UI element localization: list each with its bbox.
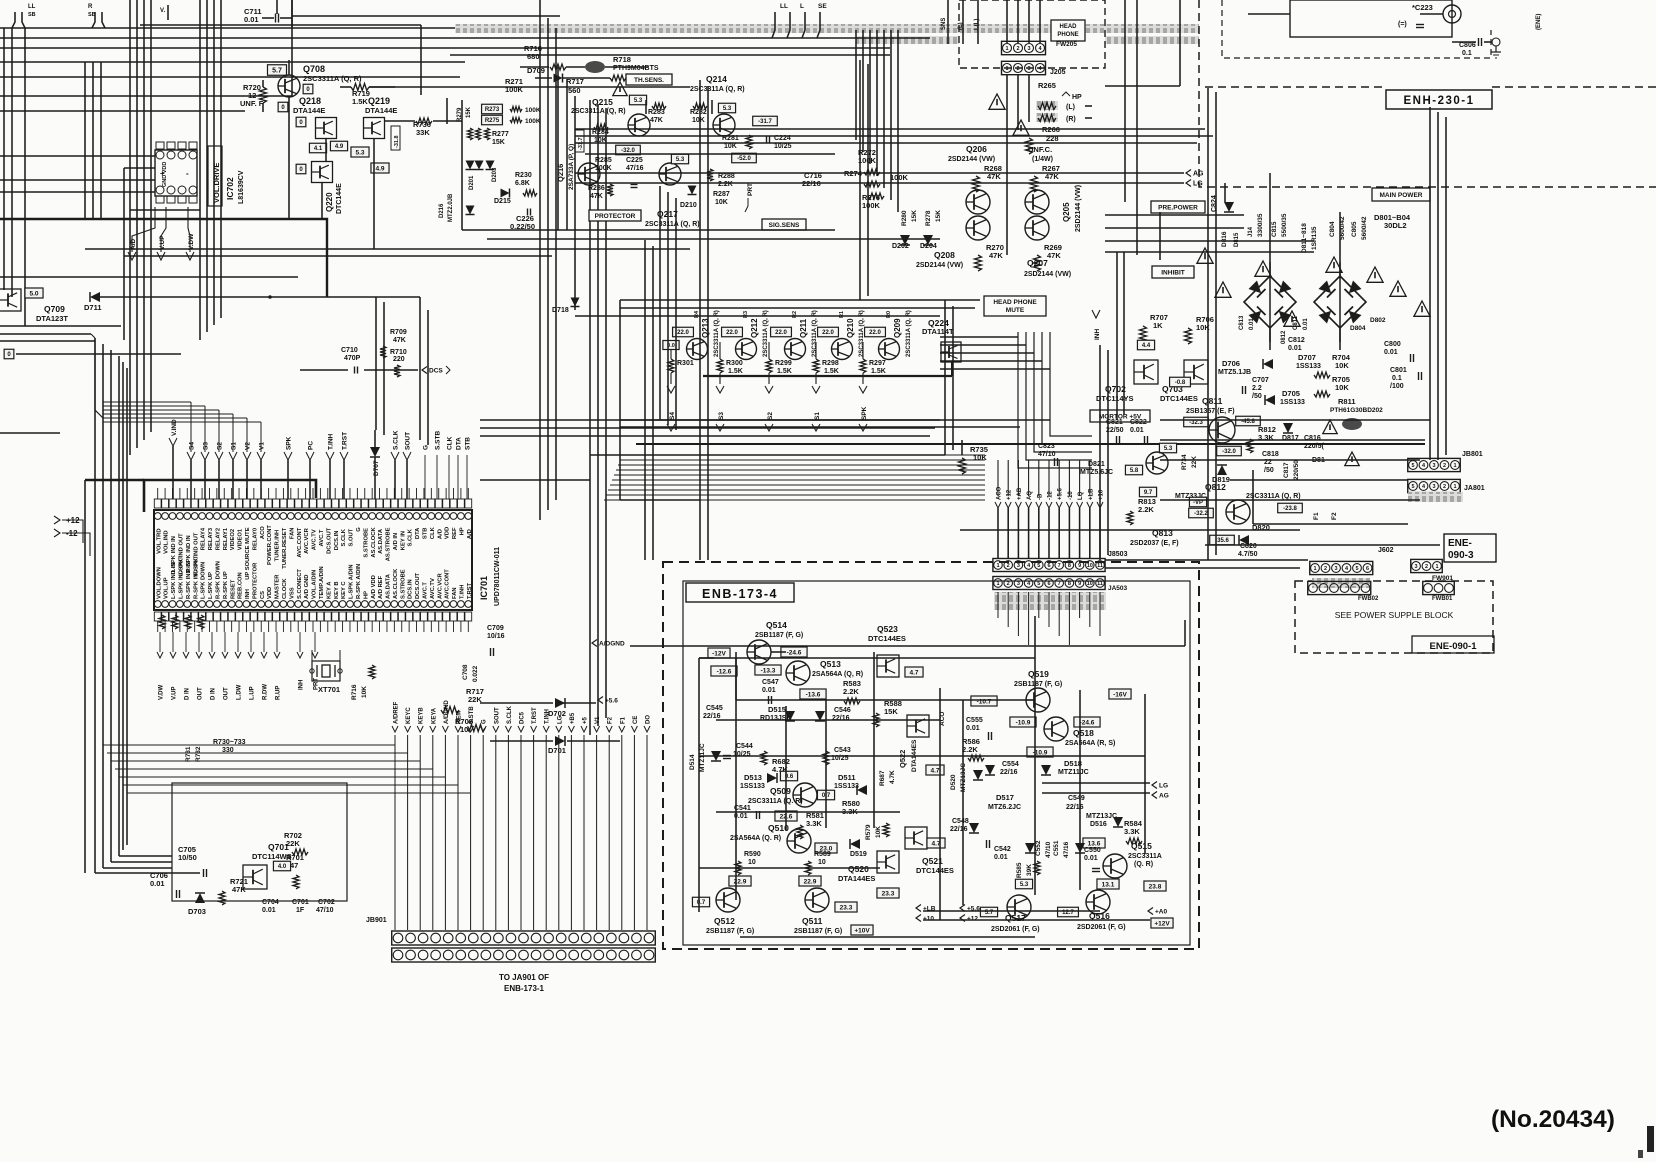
svg-text:AVC.T: AVC.T bbox=[319, 529, 325, 546]
pin bottom 23 bbox=[317, 601, 324, 608]
svg-text:C811: C811 bbox=[1293, 315, 1299, 330]
wire bbox=[103, 401, 191, 403]
node V.DW bbox=[186, 252, 194, 260]
wire fan to JB901 bbox=[394, 735, 396, 930]
svg-text:100K: 100K bbox=[525, 107, 541, 114]
svg-text:D802: D802 bbox=[1370, 317, 1386, 324]
svg-text:1SS133: 1SS133 bbox=[1280, 399, 1305, 406]
pin bottom 25 bbox=[332, 601, 339, 608]
svg-text:JB801: JB801 bbox=[1462, 451, 1483, 458]
svg-text:9.7: 9.7 bbox=[1144, 490, 1153, 496]
bus hatch 2 bbox=[856, 36, 959, 44]
svg-text:LQ: LQ bbox=[1078, 491, 1084, 500]
svg-text:1SS133: 1SS133 bbox=[834, 783, 859, 790]
pin bottom 13 bbox=[243, 601, 250, 608]
svg-text:C710: C710 bbox=[341, 347, 358, 354]
wire bbox=[12, 12, 15, 28]
wire bbox=[462, 229, 835, 231]
wire ENB v6 bbox=[939, 688, 941, 920]
svg-text:2.2K: 2.2K bbox=[843, 687, 859, 696]
svg-text:ACO: ACO bbox=[260, 526, 266, 539]
wire bbox=[167, 5, 169, 20]
svg-text:470P: 470P bbox=[344, 355, 361, 362]
wire bbox=[667, 192, 669, 425]
boxval -32.0 bbox=[1217, 446, 1242, 456]
wire vertical bundle left-mid bbox=[94, 338, 96, 873]
svg-text:1SR135: 1SR135 bbox=[1311, 226, 1318, 250]
svg-text:S.STB: S.STB bbox=[435, 431, 442, 450]
wire thick border bbox=[636, 443, 1425, 445]
pin top 42 bbox=[458, 513, 465, 520]
dashed line 2 bbox=[1492, 86, 1656, 88]
svg-text:DTC114YS: DTC114YS bbox=[1096, 394, 1134, 403]
svg-text:2: 2 bbox=[1443, 484, 1446, 490]
wire bridge v2 bbox=[1123, 252, 1125, 415]
svg-text:C542: C542 bbox=[994, 846, 1011, 853]
pin bottom 14 bbox=[250, 601, 257, 608]
boxed -24.6 bbox=[781, 647, 807, 657]
node +A0 bbox=[1148, 908, 1153, 915]
wire bbox=[675, 198, 677, 430]
svg-text:23.3: 23.3 bbox=[882, 890, 895, 897]
svg-text:R579: R579 bbox=[865, 824, 872, 840]
svg-text:L.UP: L.UP bbox=[250, 686, 256, 700]
svg-text:1: 1 bbox=[1005, 46, 1008, 52]
svg-text:C813: C813 bbox=[1239, 315, 1245, 330]
svg-text:JA503: JA503 bbox=[1108, 585, 1128, 592]
svg-text:DCS.IN: DCS.IN bbox=[334, 531, 340, 551]
svg-text:2: 2 bbox=[1425, 564, 1428, 570]
bus hatch bbox=[455, 24, 1199, 33]
node SOUT bbox=[403, 452, 411, 460]
svg-text:RELAY0: RELAY0 bbox=[252, 528, 258, 550]
label ENB-173-4 bbox=[686, 583, 794, 602]
svg-text:3: 3 bbox=[1432, 484, 1435, 490]
svg-text:(No.20434): (No.20434) bbox=[1491, 1106, 1615, 1133]
pin bottom 37 bbox=[421, 601, 428, 608]
wire bbox=[419, 297, 421, 440]
svg-text:Q219: Q219 bbox=[368, 96, 390, 106]
svg-text:3: 3 bbox=[1414, 564, 1417, 570]
svg-text:C701: C701 bbox=[292, 899, 309, 906]
svg-text:KEYA: KEYA bbox=[431, 707, 437, 724]
wire bbox=[605, 108, 607, 718]
svg-text:R709: R709 bbox=[390, 329, 407, 336]
svg-text:D516: D516 bbox=[1090, 821, 1107, 828]
svg-text:SOUT: SOUT bbox=[405, 432, 412, 450]
svg-text:A/DREF: A/DREF bbox=[394, 701, 400, 724]
label HEAD PHONE bbox=[1051, 20, 1085, 41]
wire ENB h9 bbox=[740, 936, 1035, 938]
pin top 3 bbox=[169, 513, 176, 520]
boxed -12V bbox=[708, 648, 730, 658]
wire bbox=[590, 454, 945, 456]
connector FW205 bbox=[1002, 41, 1046, 54]
transistor Q210 bbox=[832, 339, 853, 360]
pin bottom 31 bbox=[376, 601, 383, 608]
node +10b bbox=[916, 915, 921, 922]
wire bbox=[1105, 567, 1300, 569]
pin top 21 bbox=[302, 513, 309, 520]
wire bbox=[0, 340, 95, 342]
wire bbox=[944, 300, 946, 455]
svg-text:S.OUT: S.OUT bbox=[349, 528, 355, 546]
svg-text:LL: LL bbox=[28, 4, 36, 10]
diode bridge D811-D814 bbox=[1244, 276, 1296, 328]
wire bbox=[620, 299, 980, 301]
svg-text:10/16: 10/16 bbox=[487, 633, 505, 640]
svg-text:D517: D517 bbox=[996, 793, 1014, 802]
pin bottom 39 bbox=[435, 601, 442, 608]
svg-text:TUNER.INH: TUNER.INH bbox=[275, 530, 281, 562]
wire bbox=[574, 96, 576, 310]
svg-text:(ENE): (ENE) bbox=[1536, 14, 1542, 30]
svg-text:REB.CON: REB.CON bbox=[238, 572, 244, 599]
svg-text:FAN: FAN bbox=[452, 587, 458, 599]
connector FW801 bbox=[1411, 559, 1443, 572]
svg-text:A/DGND: A/DGND bbox=[599, 640, 625, 647]
svg-text:AG: AG bbox=[1159, 792, 1169, 799]
svg-text:5.3: 5.3 bbox=[355, 149, 364, 156]
svg-text:2: 2 bbox=[1007, 563, 1010, 569]
pin top 26 bbox=[339, 513, 346, 520]
node S3 bbox=[716, 386, 724, 393]
svg-text:R298: R298 bbox=[822, 360, 839, 367]
svg-text:2: 2 bbox=[1016, 66, 1019, 72]
svg-text:1.5K: 1.5K bbox=[777, 368, 792, 375]
wire right h1 bbox=[1160, 439, 1425, 441]
svg-text:F2: F2 bbox=[608, 716, 614, 724]
svg-text:DTA144ES: DTA144ES bbox=[838, 874, 875, 883]
wire bbox=[1269, 328, 1271, 350]
svg-text:22.0: 22.0 bbox=[869, 330, 881, 336]
svg-text:1: 1 bbox=[1453, 463, 1456, 469]
transistor Q211 bbox=[785, 339, 806, 360]
svg-text:R3: R3 bbox=[743, 311, 749, 318]
svg-text:10K: 10K bbox=[1335, 383, 1349, 392]
svg-text:G: G bbox=[423, 445, 430, 450]
transistor Q216a bbox=[578, 163, 600, 185]
svg-text:15K: 15K bbox=[884, 707, 898, 716]
boxed -24.6 b bbox=[1074, 717, 1100, 727]
svg-text:D709: D709 bbox=[527, 66, 545, 75]
svg-text:R732: R732 bbox=[195, 746, 202, 762]
wire bbox=[220, 0, 222, 318]
pin top 16 bbox=[265, 513, 272, 520]
pin bottom 32 bbox=[384, 601, 391, 608]
connector FWB01 bbox=[1423, 581, 1455, 594]
wire bbox=[620, 426, 1020, 428]
svg-text:D815: D815 bbox=[1234, 232, 1240, 247]
svg-text:S.CLK: S.CLK bbox=[408, 528, 414, 546]
svg-text:0812: 0812 bbox=[1281, 330, 1287, 344]
svg-text:OUT: OUT bbox=[224, 687, 230, 700]
svg-text:23.8: 23.8 bbox=[1149, 883, 1162, 890]
pin bottom 24 bbox=[324, 601, 331, 608]
svg-text:C815: C815 bbox=[1271, 221, 1278, 237]
svg-text:HP: HP bbox=[363, 591, 369, 599]
svg-text:REF: REF bbox=[452, 527, 458, 539]
svg-text:3: 3 bbox=[1334, 566, 1337, 572]
svg-text:R275: R275 bbox=[485, 118, 500, 124]
transistor Q207 bottom bbox=[1025, 216, 1049, 240]
wire bbox=[95, 338, 103, 418]
node S2 bbox=[215, 452, 223, 460]
svg-text:0.01: 0.01 bbox=[1288, 345, 1302, 352]
svg-text:C823: C823 bbox=[1038, 443, 1055, 450]
svg-text:V1: V1 bbox=[595, 716, 601, 724]
svg-text:0.1: 0.1 bbox=[1462, 50, 1472, 57]
svg-text:4.9: 4.9 bbox=[375, 165, 384, 172]
svg-text:22.0: 22.0 bbox=[726, 330, 738, 336]
svg-text:S.CLK: S.CLK bbox=[341, 528, 347, 546]
wire ENB v5 bbox=[873, 652, 875, 828]
svg-text:22.9: 22.9 bbox=[804, 878, 817, 885]
wire right h3 bbox=[1230, 479, 1408, 481]
wire bbox=[1179, 0, 1181, 86]
svg-text:L(L): L(L) bbox=[974, 19, 980, 30]
svg-text:10K: 10K bbox=[361, 686, 368, 698]
svg-text:G: G bbox=[482, 719, 488, 724]
svg-text:11: 11 bbox=[1097, 581, 1103, 587]
diode D215 bbox=[501, 189, 510, 198]
svg-text:47K: 47K bbox=[989, 251, 1003, 260]
label ENE-090-3 bbox=[1444, 534, 1496, 562]
svg-text:47K: 47K bbox=[393, 337, 406, 344]
wire bbox=[555, 28, 557, 500]
wire bbox=[487, 238, 940, 240]
node +12 bbox=[54, 516, 60, 524]
svg-text:2SD2144 (VW): 2SD2144 (VW) bbox=[1075, 185, 1082, 232]
svg-text:10: 10 bbox=[1087, 581, 1093, 587]
svg-text:T.INH: T.INH bbox=[545, 709, 551, 724]
svg-text:SPK: SPK bbox=[286, 436, 293, 450]
svg-text:Q811: Q811 bbox=[1202, 396, 1223, 406]
pin bottom 30 bbox=[369, 601, 376, 608]
wire bbox=[480, 419, 940, 421]
resistor R297 bbox=[860, 359, 866, 373]
node V2 bbox=[243, 452, 251, 460]
svg-text:R297: R297 bbox=[869, 360, 886, 367]
svg-text:R687: R687 bbox=[879, 770, 886, 786]
node PC bbox=[306, 452, 314, 460]
node S1 bbox=[229, 452, 237, 460]
svg-text:39K: 39K bbox=[1026, 864, 1033, 876]
svg-text:AS.STROBE: AS.STROBE bbox=[386, 527, 392, 561]
wire bbox=[597, 104, 599, 726]
wire bbox=[1207, 88, 1209, 560]
svg-text:KEY IN: KEY IN bbox=[400, 531, 406, 550]
svg-text:S3: S3 bbox=[203, 442, 210, 450]
svg-text:VDD: VDD bbox=[445, 527, 451, 539]
svg-text:D703: D703 bbox=[188, 907, 206, 916]
svg-text:VOL.UP: VOL.UP bbox=[164, 577, 170, 599]
pin top 9 bbox=[214, 513, 221, 520]
svg-text:ENE-: ENE- bbox=[1448, 538, 1472, 549]
pin top 15 bbox=[258, 513, 265, 520]
node AG b bbox=[1152, 792, 1157, 799]
wire bbox=[130, 209, 200, 211]
label INHIBIT bbox=[1152, 266, 1194, 278]
svg-text:MASTER: MASTER bbox=[275, 574, 281, 599]
svg-text:INH: INH bbox=[1094, 329, 1101, 341]
resistor R283 bbox=[652, 103, 666, 109]
svg-text:3: 3 bbox=[1027, 66, 1030, 72]
pin bottom 15 bbox=[258, 601, 265, 608]
svg-text:10K: 10K bbox=[1335, 361, 1349, 370]
svg-text:D202: D202 bbox=[892, 243, 909, 250]
wire bbox=[539, 0, 541, 520]
svg-text:V.DW: V.DW bbox=[188, 233, 195, 250]
svg-text:-31.8: -31.8 bbox=[394, 135, 400, 148]
transistor Q518 bbox=[1044, 717, 1068, 741]
svg-text:+A0: +A0 bbox=[1155, 908, 1167, 915]
node S4 bbox=[667, 386, 675, 393]
svg-text:DCS: DCS bbox=[429, 367, 443, 374]
svg-text:Q511: Q511 bbox=[802, 916, 823, 926]
svg-text:SE: SE bbox=[818, 3, 827, 10]
svg-text:47/10: 47/10 bbox=[1045, 841, 1052, 858]
svg-text:ENH-230-1: ENH-230-1 bbox=[1403, 95, 1474, 107]
wire bbox=[1107, 350, 1109, 555]
svg-text:TH.SENS.: TH.SENS. bbox=[634, 77, 664, 84]
wire bbox=[461, 100, 463, 230]
svg-text:22.0: 22.0 bbox=[822, 330, 834, 336]
svg-text:C818: C818 bbox=[1262, 451, 1279, 458]
svg-text:AVC.CONT: AVC.CONT bbox=[297, 527, 303, 557]
resistor R273 bbox=[482, 104, 503, 114]
svg-text:100K: 100K bbox=[862, 201, 881, 210]
svg-text:C707: C707 bbox=[1252, 377, 1269, 384]
svg-text:3: 3 bbox=[1017, 581, 1020, 587]
svg-text:R265: R265 bbox=[1038, 81, 1056, 90]
svg-text:C805: C805 bbox=[1351, 221, 1358, 237]
node T.RST bbox=[340, 452, 348, 460]
wire bbox=[0, 47, 890, 49]
svg-text:+12V: +12V bbox=[1154, 920, 1170, 927]
connector JA801 bbox=[1408, 479, 1461, 492]
wire bbox=[711, 100, 713, 114]
svg-text:8: 8 bbox=[1068, 563, 1071, 569]
svg-text:1: 1 bbox=[1435, 564, 1438, 570]
wire bbox=[136, 0, 138, 448]
svg-text:D511: D511 bbox=[838, 773, 856, 782]
wire bbox=[1124, 0, 1126, 202]
svg-text:UNF. F: UNF. F bbox=[240, 99, 264, 108]
svg-text:C708: C708 bbox=[462, 664, 469, 680]
svg-text:(L): (L) bbox=[1066, 104, 1075, 111]
svg-text:1K: 1K bbox=[1153, 321, 1163, 330]
svg-text:PROTECTOR: PROTECTOR bbox=[252, 562, 258, 599]
svg-text:D811~818: D811~818 bbox=[1301, 223, 1308, 253]
svg-text:15K: 15K bbox=[466, 106, 472, 118]
pin top 28 bbox=[354, 513, 361, 520]
svg-text:C547: C547 bbox=[762, 679, 779, 686]
svg-text:10K: 10K bbox=[875, 826, 882, 838]
node S.CLK bbox=[391, 452, 399, 460]
node V.IND bbox=[169, 438, 177, 446]
wire bbox=[92, 12, 95, 28]
svg-text:+10: +10 bbox=[923, 915, 934, 922]
pin top 11 bbox=[228, 513, 235, 520]
svg-text:AVC.CONT: AVC.CONT bbox=[445, 569, 451, 599]
boxed 22.6 bbox=[775, 811, 797, 821]
wire bbox=[11, 28, 13, 297]
svg-text:0.022: 0.022 bbox=[472, 665, 479, 682]
svg-text:-32.3: -32.3 bbox=[1189, 420, 1203, 426]
svg-text:D804: D804 bbox=[1350, 325, 1366, 332]
boxed 0.0 bbox=[663, 341, 679, 350]
wire bridge h4 bbox=[1105, 251, 1314, 253]
svg-text:TO JA901 OF: TO JA901 OF bbox=[499, 973, 549, 982]
svg-text:AVC.VCR: AVC.VCR bbox=[437, 573, 443, 599]
pin bottom 9 bbox=[214, 601, 221, 608]
svg-text:10K: 10K bbox=[724, 143, 737, 150]
wire bbox=[1099, 345, 1101, 560]
svg-text:-VP: -VP bbox=[1193, 500, 1203, 506]
boxed 23.8 bbox=[1144, 881, 1166, 891]
svg-text:UPD78011CW-011: UPD78011CW-011 bbox=[494, 547, 501, 606]
pin bottom 19 bbox=[287, 601, 294, 608]
svg-text:22K: 22K bbox=[468, 695, 482, 704]
svg-text:30DL2: 30DL2 bbox=[1384, 221, 1407, 230]
svg-text:D707: D707 bbox=[1298, 353, 1316, 362]
wire bbox=[0, 61, 465, 63]
node S2 bbox=[765, 386, 773, 393]
pin bottom 11 bbox=[228, 601, 235, 608]
svg-text:Q205: Q205 bbox=[1062, 202, 1071, 222]
dashed box top right outer bbox=[1199, 0, 1656, 187]
bus hatch 2b bbox=[1105, 36, 1199, 44]
connector J602 bbox=[1310, 561, 1373, 574]
svg-text:220/50: 220/50 bbox=[1293, 460, 1300, 480]
pin top 34 bbox=[398, 513, 405, 520]
svg-text:47/16: 47/16 bbox=[1063, 841, 1070, 858]
dashed box ENB-173-4 bbox=[663, 562, 1199, 949]
wire bbox=[1339, 328, 1341, 350]
svg-text:47K: 47K bbox=[1047, 251, 1061, 260]
transistor Q209 bbox=[879, 339, 900, 360]
wire right v5 bbox=[1252, 470, 1254, 524]
svg-text:22/16: 22/16 bbox=[1000, 769, 1018, 776]
svg-text:10: 10 bbox=[818, 859, 826, 866]
svg-text:V1: V1 bbox=[259, 442, 266, 450]
pin top 12 bbox=[236, 513, 243, 520]
connector FWB02 bbox=[1308, 581, 1371, 594]
wire bbox=[1437, 112, 1439, 460]
svg-text:3300/35: 3300/35 bbox=[1257, 213, 1264, 237]
svg-text:PHONE: PHONE bbox=[1057, 32, 1078, 38]
wire ENB h5 bbox=[716, 811, 900, 813]
svg-text:2.2K: 2.2K bbox=[718, 181, 733, 188]
wire bbox=[84, 62, 86, 219]
wire right h4 bbox=[1253, 523, 1408, 525]
svg-text:-12.6: -12.6 bbox=[717, 668, 732, 675]
svg-text:15K: 15K bbox=[935, 210, 942, 222]
transistor Q521 bbox=[905, 827, 927, 849]
transistor Q216b bbox=[659, 163, 681, 185]
pin top 32 bbox=[384, 513, 391, 520]
boxed 23.3 a bbox=[877, 888, 899, 898]
svg-text:D821: D821 bbox=[1088, 461, 1105, 468]
svg-text:SIG.SENS: SIG.SENS bbox=[769, 222, 800, 229]
svg-text:DTA: DTA bbox=[456, 437, 463, 450]
svg-text:INH: INH bbox=[299, 680, 305, 690]
svg-text:CLK: CLK bbox=[447, 436, 454, 450]
wire bbox=[84, 480, 86, 873]
wire ENB v10 bbox=[962, 700, 964, 905]
wire bridge h2 bbox=[1105, 227, 1244, 229]
